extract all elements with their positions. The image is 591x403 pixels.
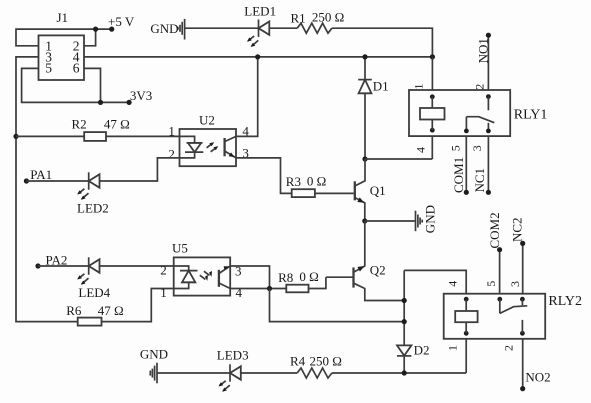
svg-text:NC2: NC2 [510,217,525,242]
svg-text:2: 2 [472,84,486,90]
svg-text:3: 3 [508,281,522,287]
svg-text:5: 5 [449,145,463,151]
svg-text:D2: D2 [414,343,430,358]
svg-text:4: 4 [236,285,243,300]
svg-text:GND: GND [423,205,438,233]
svg-text:R6: R6 [66,303,82,318]
svg-text:4: 4 [446,281,460,287]
svg-text:NC1: NC1 [472,168,487,193]
svg-text:2: 2 [502,345,516,351]
svg-text:R1: R1 [291,11,306,26]
svg-text:LED3: LED3 [217,348,249,363]
svg-text:PA2: PA2 [46,252,68,267]
svg-text:LED2: LED2 [77,201,109,216]
svg-text:0 Ω: 0 Ω [307,174,326,189]
svg-text:R2: R2 [72,117,87,132]
svg-text:3: 3 [470,145,484,151]
svg-text:NO2: NO2 [525,370,550,385]
svg-text:U2: U2 [199,113,215,128]
svg-text:1: 1 [168,124,175,139]
svg-text:D1: D1 [373,79,389,94]
svg-text:RLY1: RLY1 [514,107,548,122]
svg-text:47 Ω: 47 Ω [98,303,124,318]
svg-text:0 Ω: 0 Ω [299,269,318,284]
svg-text:1: 1 [411,84,425,90]
svg-text:NO1: NO1 [475,38,490,63]
svg-text:4: 4 [414,147,428,153]
svg-text:Q2: Q2 [370,263,386,278]
svg-text:LED1: LED1 [244,3,276,18]
svg-text:COM2: COM2 [487,212,502,248]
svg-text:R8: R8 [278,270,293,285]
svg-text:LED4: LED4 [78,285,110,300]
svg-text:250 Ω: 250 Ω [310,353,342,368]
svg-text:5: 5 [484,281,498,287]
svg-text:2: 2 [160,263,167,278]
svg-text:Q1: Q1 [370,183,386,198]
svg-text:R3: R3 [286,174,301,189]
svg-text:J1: J1 [57,10,69,25]
svg-text:R4: R4 [290,353,306,368]
svg-text:U5: U5 [172,241,188,256]
svg-text:6: 6 [73,61,80,76]
svg-text:1: 1 [446,345,460,351]
svg-text:COM1: COM1 [451,157,466,193]
svg-text:5: 5 [45,61,52,76]
svg-text:+5 V: +5 V [108,14,135,29]
svg-text:250 Ω: 250 Ω [312,9,344,24]
svg-text:2: 2 [168,146,175,161]
svg-text:47 Ω: 47 Ω [104,117,130,132]
svg-text:GND: GND [150,21,178,36]
svg-text:3V3: 3V3 [130,88,152,103]
svg-text:RLY2: RLY2 [548,294,582,309]
svg-text:PA1: PA1 [30,167,52,182]
svg-text:1: 1 [160,285,167,300]
svg-text:GND: GND [140,347,168,362]
